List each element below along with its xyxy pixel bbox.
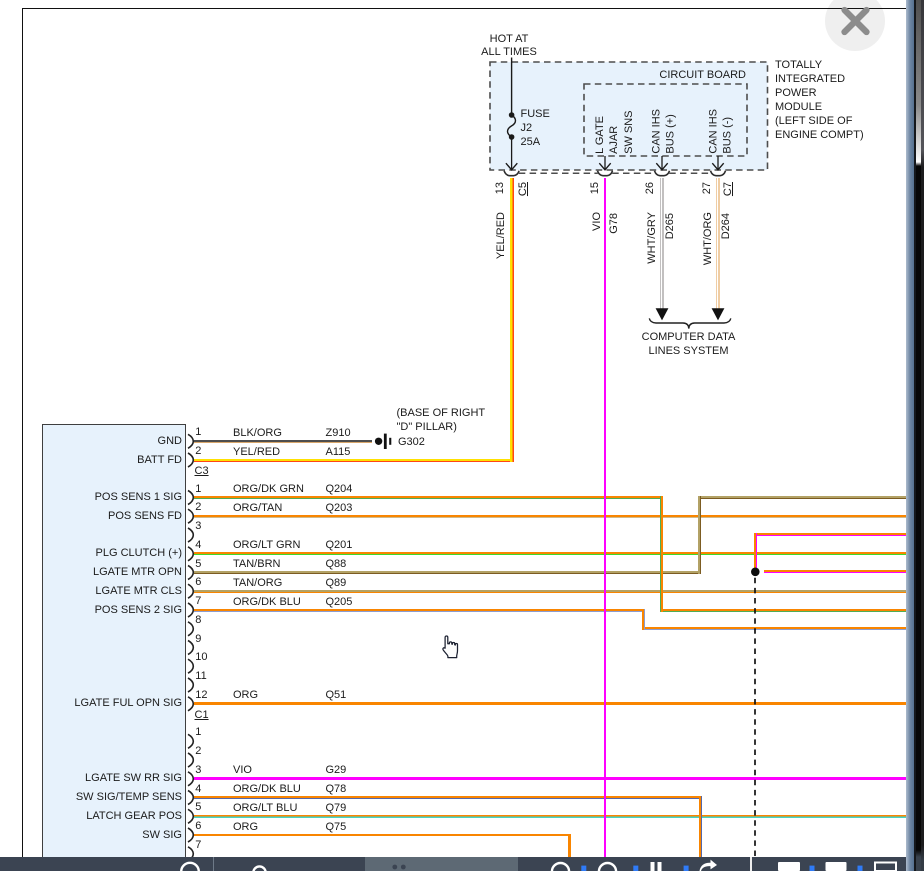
pin arc [188, 584, 193, 598]
pin label POS SENS 1 SIG [52, 491, 182, 504]
pin 4 number [195, 783, 201, 796]
pin 12 number [195, 689, 207, 702]
wire label ORG Q75 [233, 821, 258, 834]
wire label ORG/DK GRN Q204 [233, 483, 304, 496]
arrow pin26 exit [656, 156, 667, 170]
pin 26 [644, 182, 657, 382]
wire Q204 vertical jog [660, 496, 663, 612]
pin 2 number [195, 745, 201, 758]
wire label TAN/ORG Q89 [233, 577, 282, 590]
wire BLK/ORG Z910 (GND) [194, 440, 372, 443]
pin arc [188, 603, 193, 617]
wire TAN/ORG Q89 [194, 590, 906, 593]
pin 15 [589, 182, 602, 382]
frame top line [22, 8, 906, 10]
arrowhead D265 [656, 308, 669, 320]
wire ORG/DK BLU Q205 seg1 [194, 609, 646, 612]
wire label BLK/ORG Z910 [233, 427, 282, 440]
label COMPUTER DATA LINES SYSTEM [600, 331, 777, 344]
wire highlight wire lower seg [764, 570, 907, 573]
wire label WHT/ORG [702, 212, 715, 412]
pin arc [188, 434, 193, 448]
wire ORG/DK BLU Q205 seg2 [642, 627, 906, 630]
connector arc 26 [655, 171, 670, 176]
pin label BATT FD [52, 454, 182, 467]
scrollbar thumb (inner) [906, 0, 915, 871]
pin arc [188, 791, 193, 805]
connector arc 15 [598, 171, 613, 176]
pin arc [188, 847, 193, 861]
label FUSE J2 25A [521, 108, 550, 121]
pin 5 number [195, 801, 201, 814]
wire label ORG/LT BLU Q79 [233, 802, 297, 815]
toolbar active panel [365, 857, 518, 871]
pin 2 number [195, 445, 201, 458]
wire ORG Q51 [194, 702, 906, 705]
wire label WHT/GRY [646, 212, 659, 412]
pin label SW SIG [52, 829, 182, 842]
wire label G78 [608, 213, 621, 413]
arrowhead D264 [712, 308, 725, 320]
pin label PLG CLUTCH (+) [52, 547, 182, 560]
pin label POS SENS 2 SIG [52, 604, 182, 617]
wire ORG/DK GRN Q204 seg1 [194, 496, 663, 499]
wire ORG Q75 seg1 [194, 834, 572, 837]
wire label ORG/TAN Q203 [233, 502, 282, 515]
wire YEL/RED A115 (BATT FD) [194, 459, 515, 462]
wire label ORG/DK BLU Q205 [233, 596, 301, 609]
wire Q88 vertical jog [698, 496, 701, 574]
brace computer data lines [649, 318, 731, 328]
wire ORG/LT BLU Q79 [194, 815, 906, 818]
wire ORG/LT GRN Q201 [194, 552, 906, 555]
scrollbar dark edge [914, 0, 916, 871]
pin arc [188, 659, 193, 673]
toolbar icons [0, 857, 924, 871]
wire Q78 vertical drop [699, 796, 702, 858]
toolbar separator [213, 857, 214, 871]
pin arc [188, 828, 193, 842]
pin 11 number [195, 670, 206, 683]
wire YEL/RED vertical [510, 178, 514, 462]
pin label SW SIG/TEMP SENS [52, 791, 182, 804]
pin 5 number [195, 558, 201, 571]
connector arc C7 [711, 171, 726, 176]
pin arc [188, 697, 193, 711]
connector C5-C7 dashed boundary [519, 172, 711, 174]
connector arc C5 [504, 171, 519, 176]
close X [0, 0, 924, 60]
wire ORG/TAN Q203 [194, 515, 906, 518]
wire label D264 [720, 213, 733, 413]
toolbar [0, 857, 924, 871]
wire label VIO vertical [591, 212, 604, 412]
outer scrollbar gradient strip [916, 0, 921, 871]
pin 10 number [195, 651, 207, 664]
pin 2 number [195, 501, 201, 514]
pin 8 number [195, 614, 201, 627]
arrow pin15 exit [599, 156, 610, 170]
pin label GND [52, 435, 182, 448]
pin label L GATE AJAR SW SNS [593, 0, 636, 154]
outer scrollbar right edge [921, 0, 924, 871]
wire label ORG/LT GRN Q201 [233, 539, 300, 552]
wire WHT/ORG D264 vertical [716, 178, 719, 309]
frame left line [22, 8, 24, 858]
wire label TAN/BRN Q88 [233, 558, 280, 571]
pin arc [188, 528, 193, 542]
pin label CAN IHS BUS (+) [650, 0, 679, 154]
wire TAN/BRN Q88 seg2 [698, 496, 906, 499]
label CIRCUIT BOARD [600, 69, 746, 82]
pin 4 number [195, 539, 201, 552]
wire Q205 vertical jog [642, 609, 645, 630]
wire label VIO G29 [233, 764, 252, 777]
wire Q75 vertical drop [568, 834, 571, 858]
pin 6 number [195, 576, 201, 589]
pin arc [188, 809, 193, 823]
wire VIO G29 [194, 777, 906, 780]
pin C5 [517, 182, 530, 382]
pin arc [188, 641, 193, 655]
wire WHT/GRY D265 vertical [660, 178, 663, 309]
wire label D265 [664, 213, 677, 413]
pin label POS SENS FD [52, 510, 182, 523]
pin label CAN IHS BUS (-) [707, 0, 736, 154]
dashed drop line from junction [754, 578, 756, 858]
label C3 [195, 465, 209, 478]
wire highlight wire upper seg [754, 533, 906, 536]
pin arc [188, 734, 193, 748]
wire ORG/DK BLU Q78 seg1 [194, 796, 703, 799]
label HOT AT ALL TIMES [449, 33, 569, 46]
pin arc [188, 547, 193, 561]
pin 3 number [195, 764, 201, 777]
pin 27 [701, 182, 714, 382]
wire label YEL/RED vertical [495, 212, 508, 412]
pin 1 number [195, 426, 201, 439]
pin label LGATE MTR OPN [52, 566, 182, 579]
pin arc [188, 566, 193, 580]
label G302 [398, 436, 425, 449]
wire TAN/BRN Q88 seg1 [194, 571, 702, 574]
TIPM outer dashed box [490, 62, 768, 170]
pin 3 number [195, 520, 201, 533]
wire from HOT AT to fuse [511, 58, 513, 116]
circuit board inner dashed box [584, 84, 747, 156]
connector block (left) [42, 424, 187, 858]
pin 7 number [195, 839, 201, 852]
pin 13 [494, 182, 507, 382]
pin label LGATE FUL OPN SIG [52, 697, 182, 710]
ground G302 [375, 434, 391, 449]
pin arc [188, 753, 193, 767]
pin 7 number [195, 595, 201, 608]
pin arc [188, 772, 193, 786]
pin C7 [722, 182, 735, 382]
junction dot [751, 568, 760, 577]
arrow pin27 exit [712, 156, 723, 170]
wire highlight vertical jog [754, 533, 757, 568]
pin 6 number [195, 820, 201, 833]
label TIPM block [775, 58, 864, 142]
wire VIO G78 vertical [604, 178, 607, 858]
mouse cursor [440, 634, 466, 662]
toolbar white divider [750, 857, 752, 871]
wire ORG/DK GRN Q204 seg2 [660, 609, 906, 612]
pin label LGATE SW RR SIG [52, 772, 182, 785]
pin arc [188, 678, 193, 692]
fuse J2 25A [506, 112, 517, 170]
pin arc [188, 491, 193, 505]
wire label YEL/RED A115 [233, 446, 280, 459]
pin label LATCH GEAR POS [52, 810, 182, 823]
pin 9 number [195, 633, 201, 646]
label ground location [397, 407, 486, 420]
wire label ORG/DK BLU Q78 [233, 783, 301, 796]
pin arc [188, 509, 193, 523]
pin 1 number [195, 726, 201, 739]
pin arc [188, 453, 193, 467]
close button [825, 0, 885, 51]
label C1 [195, 709, 209, 722]
pin 1 number [195, 483, 201, 496]
pin arc [188, 622, 193, 636]
wire label ORG Q51 [233, 689, 258, 702]
pin label LGATE MTR CLS [52, 585, 182, 598]
